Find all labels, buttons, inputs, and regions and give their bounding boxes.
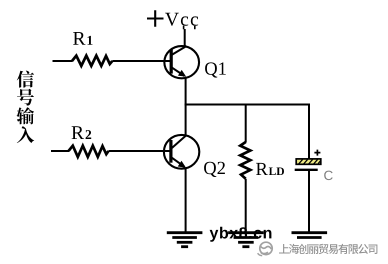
label R1	[73, 32, 92, 45]
ground (Q2 emitter)	[167, 233, 203, 247]
wire capacitor top lead	[308, 104, 310, 160]
label C	[324, 171, 333, 181]
wire output bus	[185, 104, 310, 106]
transistor Q2	[164, 135, 199, 169]
label 信号输入 (signal input)	[17, 71, 35, 144]
watermark ybx8.cn	[210, 227, 272, 242]
power +Vcc label	[147, 10, 198, 29]
resistor R2	[51, 146, 170, 157]
wire RLD top lead	[245, 104, 247, 143]
ground (C)	[292, 233, 328, 247]
label R2	[72, 126, 92, 139]
resistor RLD	[240, 142, 250, 179]
watermark logo	[258, 242, 273, 255]
label Q2	[204, 162, 225, 177]
watermark 上海创丽贸易有限公司	[279, 244, 377, 254]
ground (RLD)	[228, 233, 264, 247]
label RLD	[256, 163, 284, 175]
transistor Q1	[164, 46, 199, 78]
watermark background strip	[256, 240, 388, 260]
wire Q2 emitter lead	[185, 169, 187, 233]
resistor R1	[53, 56, 171, 66]
wire capacitor bottom lead	[308, 171, 310, 232]
capacitor C	[295, 150, 321, 170]
label Q1	[205, 62, 226, 77]
wire Q1 emitter to Q2 collector	[185, 78, 187, 136]
wire RLD bottom lead	[245, 179, 247, 232]
wire Vcc lead	[184, 29, 186, 47]
